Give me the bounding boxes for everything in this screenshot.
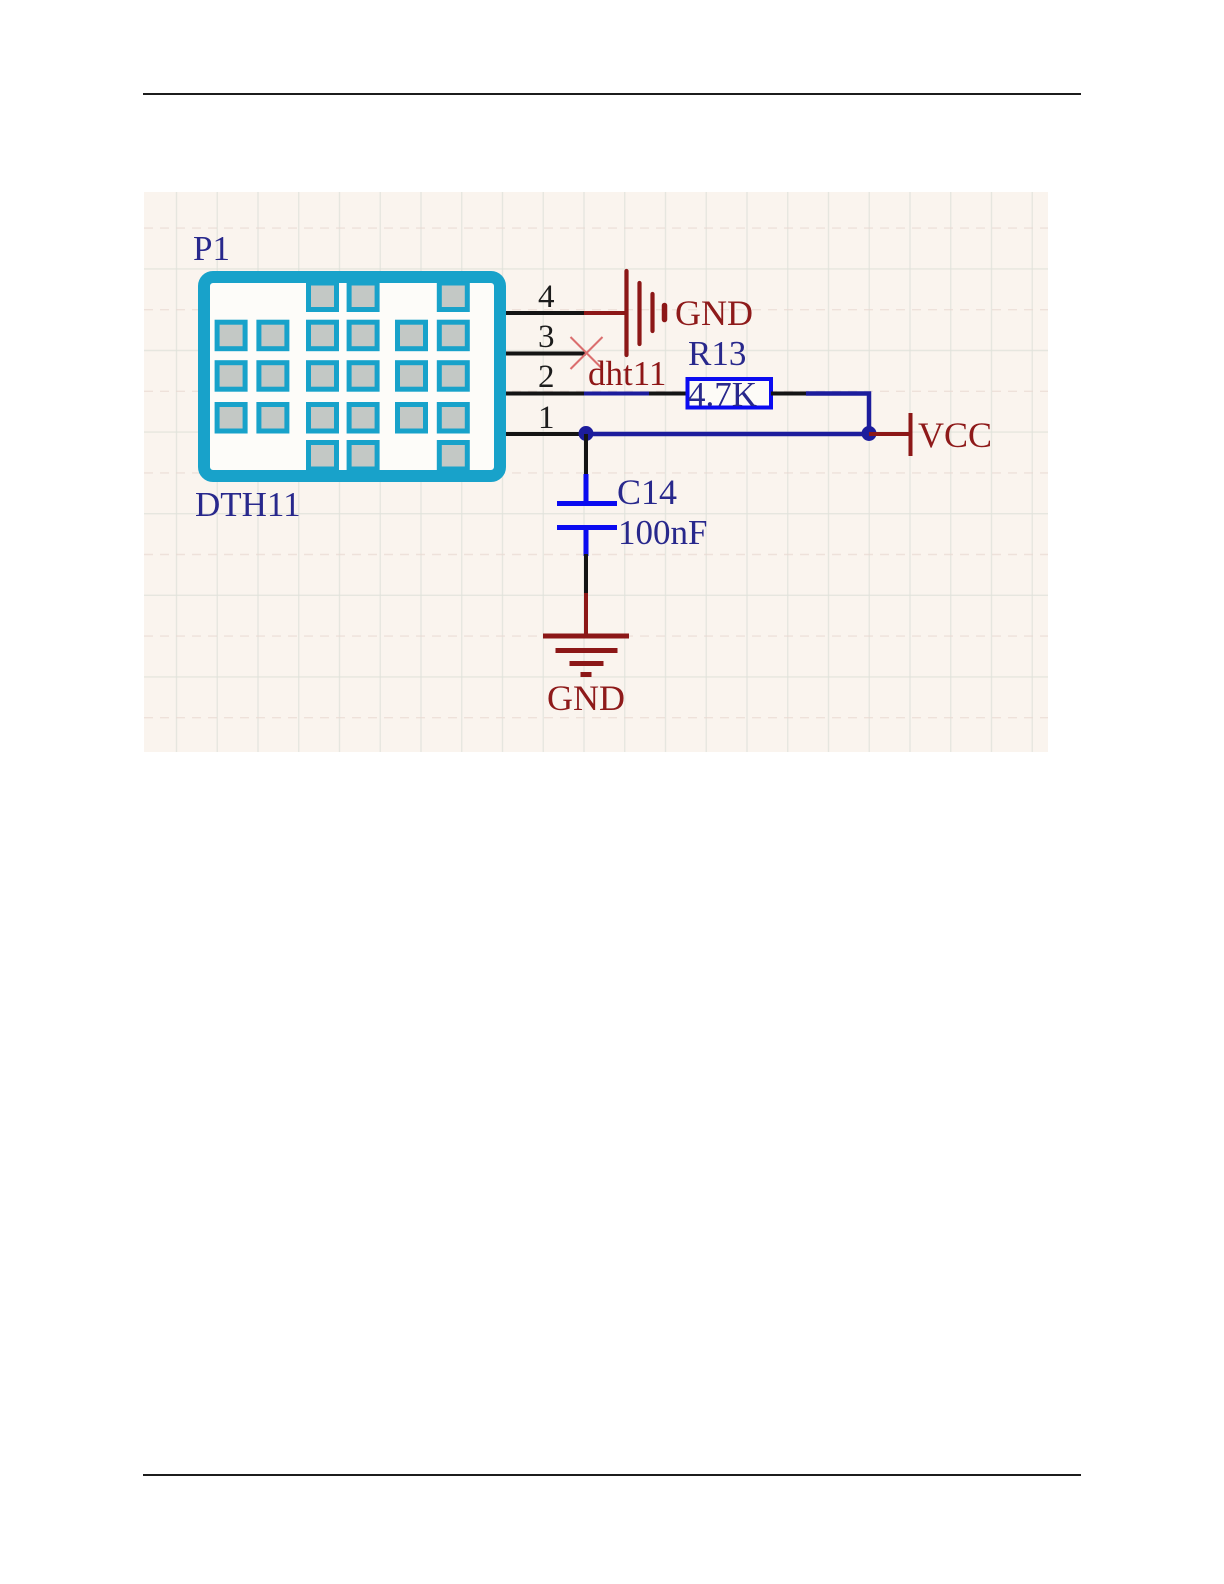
wire junction down to C14 bbox=[584, 434, 588, 476]
capacitor C14 top plate bbox=[557, 501, 617, 506]
wire junction to VCC bbox=[869, 432, 909, 436]
svg-text:100nF: 100nF bbox=[618, 513, 707, 552]
pin 3 bbox=[506, 352, 586, 356]
no-connect X on pin 3 bbox=[571, 337, 603, 369]
svg-text:VCC: VCC bbox=[918, 415, 992, 455]
pin 4 bbox=[506, 311, 586, 315]
connector P1 sensor grid squares bbox=[217, 283, 467, 469]
svg-text:R13: R13 bbox=[688, 334, 746, 373]
resistor R13 left lead bbox=[649, 392, 687, 396]
pin 1 bbox=[506, 432, 586, 436]
capacitor C14 bottom plate bbox=[557, 525, 617, 530]
junction node at pin1 / C14 bbox=[579, 426, 594, 441]
resistor R13 right lead bbox=[771, 392, 808, 396]
wire pin4 to GND power symbol bbox=[584, 311, 625, 315]
bottom horizontal rule bbox=[143, 1474, 1081, 1476]
svg-text:P1: P1 bbox=[193, 229, 230, 268]
wire C14 to ground bbox=[584, 554, 588, 595]
svg-text:4.7K: 4.7K bbox=[688, 375, 757, 414]
junction node at resistor / VCC bbox=[862, 426, 877, 441]
capacitor C14 top stub bbox=[584, 474, 589, 501]
power symbol VCC bar bbox=[909, 413, 913, 456]
svg-text:GND: GND bbox=[675, 293, 753, 333]
wire pin2 to resistor R13 bbox=[584, 392, 651, 396]
wire pin1 net (horizontal) bbox=[584, 432, 871, 437]
svg-text:dht11: dht11 bbox=[588, 354, 666, 393]
svg-text:DTH11: DTH11 bbox=[195, 485, 301, 524]
connector P1 body (DHT11 sensor outline) bbox=[204, 277, 500, 476]
svg-text:4: 4 bbox=[538, 279, 555, 315]
schematic panel background with grid bbox=[144, 192, 1048, 752]
capacitor C14 bottom stub bbox=[584, 528, 589, 557]
wire resistor to corner bbox=[806, 394, 869, 435]
svg-text:C14: C14 bbox=[617, 472, 677, 512]
pin 2 bbox=[506, 392, 586, 396]
svg-text:1: 1 bbox=[538, 400, 555, 436]
svg-text:GND: GND bbox=[547, 678, 625, 718]
ground symbol (bottom GND) bbox=[543, 636, 629, 675]
top horizontal rule bbox=[143, 93, 1081, 95]
svg-text:2: 2 bbox=[538, 359, 555, 395]
wire to ground (red segment) bbox=[584, 593, 588, 636]
resistor R13 body bbox=[688, 379, 772, 408]
ground GND power bar symbol bbox=[627, 271, 665, 355]
svg-text:3: 3 bbox=[538, 319, 555, 355]
